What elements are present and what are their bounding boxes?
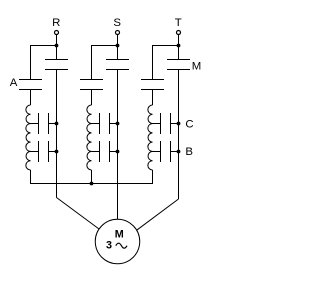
svg-text:3: 3: [106, 240, 112, 252]
junction dot star point phase S: [90, 182, 94, 186]
wire junction down to contact M phase T: [178, 46, 180, 60]
wire left branch down phase R: [30, 45, 32, 80]
wire terminal T to junction: [178, 35, 180, 46]
junction dot tap 1 phase R: [55, 122, 59, 126]
junction dot phase T top: [177, 44, 181, 48]
svg-text:R: R: [52, 17, 60, 29]
diagonal wire phase T to motor: [137, 199, 179, 230]
contact lower plate phase S: [106, 69, 129, 71]
svg-text:A: A: [10, 77, 18, 89]
svg-text:T: T: [175, 17, 182, 29]
contact upper plate left branch phase S: [80, 79, 103, 81]
tap lead to main wire phase T tap 1: [171, 123, 179, 125]
contact M upper plate phase T: [167, 59, 190, 61]
terminal T circle: [177, 31, 181, 35]
tap lead to main wire phase S tap 2: [110, 151, 118, 153]
autotransformer winding coil phase R: [26, 105, 31, 170]
terminal R circle: [55, 31, 59, 35]
motor sine symbol: [116, 243, 127, 248]
wire contact to winding phase T: [152, 90, 154, 106]
junction dot phase S top: [116, 44, 120, 48]
diagonal wire phase R to motor: [57, 198, 100, 230]
junction dot tap 2 phase R: [55, 150, 59, 154]
wire terminal R to junction: [56, 35, 58, 46]
contact lower plate left branch phase T: [141, 89, 164, 91]
tap contact right plate phase T tap 1: [170, 113, 172, 134]
contact lower plate left branch phase S: [80, 89, 103, 91]
tap contact right plate phase R tap 2: [48, 141, 50, 162]
wire contact to winding phase S: [91, 90, 93, 106]
wire left branch down phase S: [91, 45, 93, 80]
wire terminal S to junction: [117, 35, 119, 46]
tap contact left plate phase S tap 2: [99, 141, 101, 162]
wire winding bottom to star point phase R: [30, 170, 32, 184]
contact M lower plate phase T: [167, 69, 190, 71]
contact A lower plate left branch phase R: [19, 89, 42, 91]
tap lead winding to contact phase T tap 1: [153, 123, 161, 125]
tap contact right plate phase S tap 2: [109, 141, 111, 162]
svg-text:M: M: [192, 60, 202, 72]
star point wire joining winding bottoms: [30, 183, 153, 185]
tap lead to main wire phase S tap 1: [110, 123, 118, 125]
main wire phase S down to motor: [117, 70, 119, 220]
tap contact right plate phase S tap 1: [109, 113, 111, 134]
wire winding bottom to star point phase S: [91, 170, 93, 184]
wire left branch down phase T: [152, 45, 154, 80]
contact A upper plate left branch phase R: [19, 79, 42, 81]
tap contact left plate phase T tap 1: [160, 113, 162, 134]
tap contact right plate phase T tap 2: [170, 141, 172, 162]
main wire phase R down to bend: [56, 70, 58, 198]
wire junction down to contact phase S: [117, 46, 119, 60]
junction dot tap 2 phase S: [116, 150, 120, 154]
svg-text:B: B: [185, 146, 193, 158]
main wire phase T down to bend: [178, 70, 180, 200]
tap lead winding to contact phase S tap 1: [92, 123, 100, 125]
wire winding bottom to star point phase T: [152, 170, 154, 184]
contact lower plate phase R: [45, 69, 68, 71]
wire junction down to contact phase R: [56, 46, 58, 60]
wire junction to left branch phase T: [152, 45, 179, 47]
svg-text:S: S: [113, 17, 121, 29]
tap lead winding to contact phase R tap 1: [31, 123, 39, 125]
autotransformer winding coil phase T: [148, 105, 153, 170]
junction dot tap 2 phase T: [177, 150, 181, 154]
junction dot tap 1 phase S: [116, 122, 120, 126]
tap lead to main wire phase R tap 2: [49, 151, 57, 153]
tap contact right plate phase R tap 1: [48, 113, 50, 134]
motor M 3-phase circle: [95, 219, 140, 264]
tap contact left plate phase S tap 1: [99, 113, 101, 134]
tap lead to main wire phase R tap 1: [49, 123, 57, 125]
junction dot tap 1 phase T: [177, 122, 181, 126]
wire contact to winding phase R: [30, 90, 32, 106]
tap lead to main wire phase T tap 2: [171, 151, 179, 153]
contact upper plate phase S: [106, 59, 129, 61]
contact upper plate left branch phase T: [141, 79, 164, 81]
wire junction to left branch phase S: [91, 45, 118, 47]
svg-text:C: C: [185, 118, 193, 130]
tap lead winding to contact phase S tap 2: [92, 151, 100, 153]
tap contact left plate phase T tap 2: [160, 141, 162, 162]
svg-text:M: M: [115, 229, 124, 241]
autotransformer winding coil phase S: [87, 105, 92, 170]
tap contact left plate phase R tap 2: [38, 141, 40, 162]
terminal S circle: [116, 31, 120, 35]
tap contact left plate phase R tap 1: [38, 113, 40, 134]
wire junction to left branch phase R: [30, 45, 57, 47]
tap lead winding to contact phase T tap 2: [153, 151, 161, 153]
tap lead winding to contact phase R tap 2: [31, 151, 39, 153]
junction dot phase R top: [55, 44, 59, 48]
contact upper plate phase R: [45, 59, 68, 61]
